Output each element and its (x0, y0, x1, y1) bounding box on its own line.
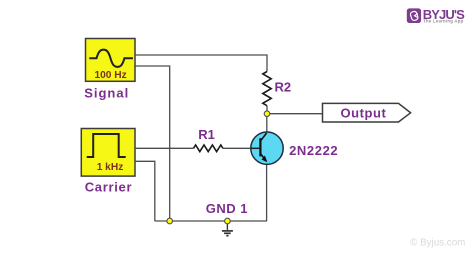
svg-text:Output: Output (340, 105, 386, 120)
ground symbol (222, 224, 233, 236)
svg-text:1 kHz: 1 kHz (97, 162, 124, 173)
wire emitter riser (266, 161, 268, 221)
resistor R2 (263, 72, 271, 106)
label 2N2222 (289, 143, 338, 158)
svg-text:R2: R2 (275, 80, 292, 95)
wire R1 to base (223, 147, 260, 149)
svg-text:Signal: Signal (84, 86, 129, 101)
label GND 1 (206, 201, 248, 216)
wire signal ground down to rail (135, 66, 170, 221)
wire collector node down to transistor collector (266, 114, 268, 135)
svg-text:100 Hz: 100 Hz (94, 70, 126, 81)
label Carrier (85, 180, 133, 195)
svg-text:Carrier: Carrier (85, 180, 133, 195)
svg-text:R1: R1 (198, 127, 215, 142)
wire signal output to R2 top (135, 55, 267, 72)
square wave symbol (87, 134, 126, 157)
svg-text:© Byjus.com: © Byjus.com (410, 238, 465, 249)
node ground-symbol junction (225, 218, 231, 224)
output flag (323, 103, 411, 122)
svg-text:GND 1: GND 1 (206, 201, 248, 216)
svg-text:The Learning App: The Learning App (423, 18, 463, 23)
signal source V1 box (86, 39, 136, 82)
watermark Byjus.com (410, 238, 465, 249)
value label 1 kHz (97, 162, 124, 173)
node collector junction (264, 111, 270, 117)
label Output (340, 105, 386, 120)
label R2 (275, 80, 292, 95)
value label 100 Hz (94, 70, 126, 81)
svg-text:2N2222: 2N2222 (289, 143, 338, 158)
label Signal (84, 86, 129, 101)
transistor Q1 body (251, 132, 283, 164)
wire collector node to output flag (267, 113, 323, 115)
Byju's logo wordmark (423, 7, 465, 24)
sine wave symbol (89, 50, 133, 67)
wire carrier output to R1 (135, 147, 194, 149)
carrier source V2 box (81, 129, 135, 177)
Byju's logo badge (407, 8, 421, 23)
ground rail wire (155, 220, 267, 222)
resistor R1 (194, 145, 223, 152)
label R1 (198, 127, 215, 142)
node ground-left junction (167, 218, 173, 224)
wire carrier ground down to rail (135, 161, 155, 221)
wire R2 bottom to collector node (266, 106, 268, 114)
